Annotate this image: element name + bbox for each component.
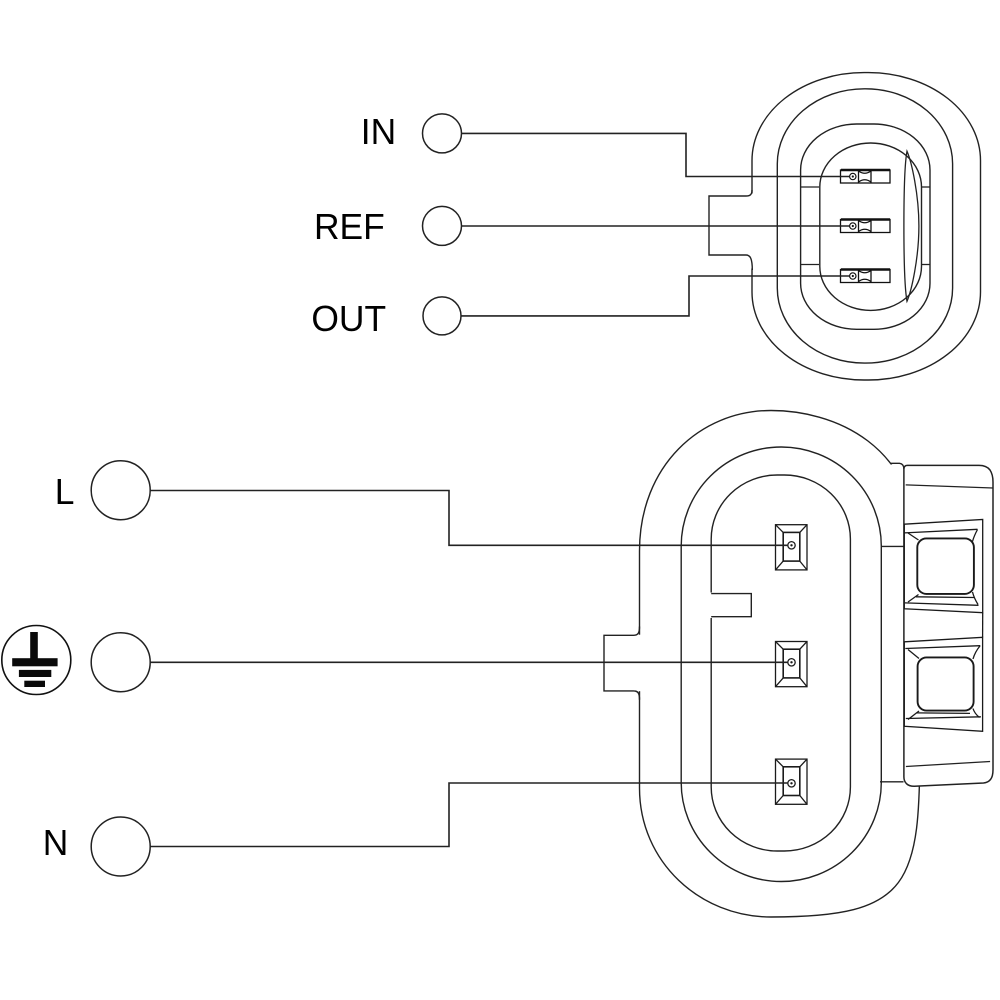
svg-text:IN: IN (361, 111, 396, 153)
svg-text:N: N (43, 822, 69, 864)
svg-text:OUT: OUT (311, 298, 386, 340)
svg-text:REF: REF (314, 206, 385, 248)
svg-text:L: L (55, 471, 75, 513)
